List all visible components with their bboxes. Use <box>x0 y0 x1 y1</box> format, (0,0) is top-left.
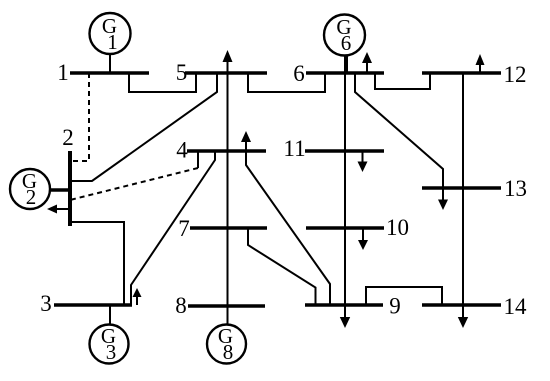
svg-text:3: 3 <box>106 340 117 364</box>
svg-text:1: 1 <box>107 30 118 54</box>
svg-text:1: 1 <box>57 60 69 85</box>
svg-text:8: 8 <box>223 340 234 364</box>
svg-text:8: 8 <box>175 293 187 318</box>
svg-text:7: 7 <box>178 216 190 241</box>
svg-text:13: 13 <box>504 176 527 201</box>
svg-text:11: 11 <box>283 136 305 161</box>
svg-text:6: 6 <box>293 61 305 86</box>
svg-text:2: 2 <box>26 185 37 209</box>
svg-text:4: 4 <box>176 138 188 163</box>
svg-text:2: 2 <box>62 125 74 150</box>
svg-text:14: 14 <box>504 294 528 319</box>
svg-text:9: 9 <box>389 294 401 319</box>
svg-text:10: 10 <box>386 215 409 240</box>
svg-text:5: 5 <box>176 60 188 85</box>
svg-text:12: 12 <box>504 62 527 87</box>
svg-text:6: 6 <box>341 31 352 55</box>
svg-text:3: 3 <box>40 291 52 316</box>
